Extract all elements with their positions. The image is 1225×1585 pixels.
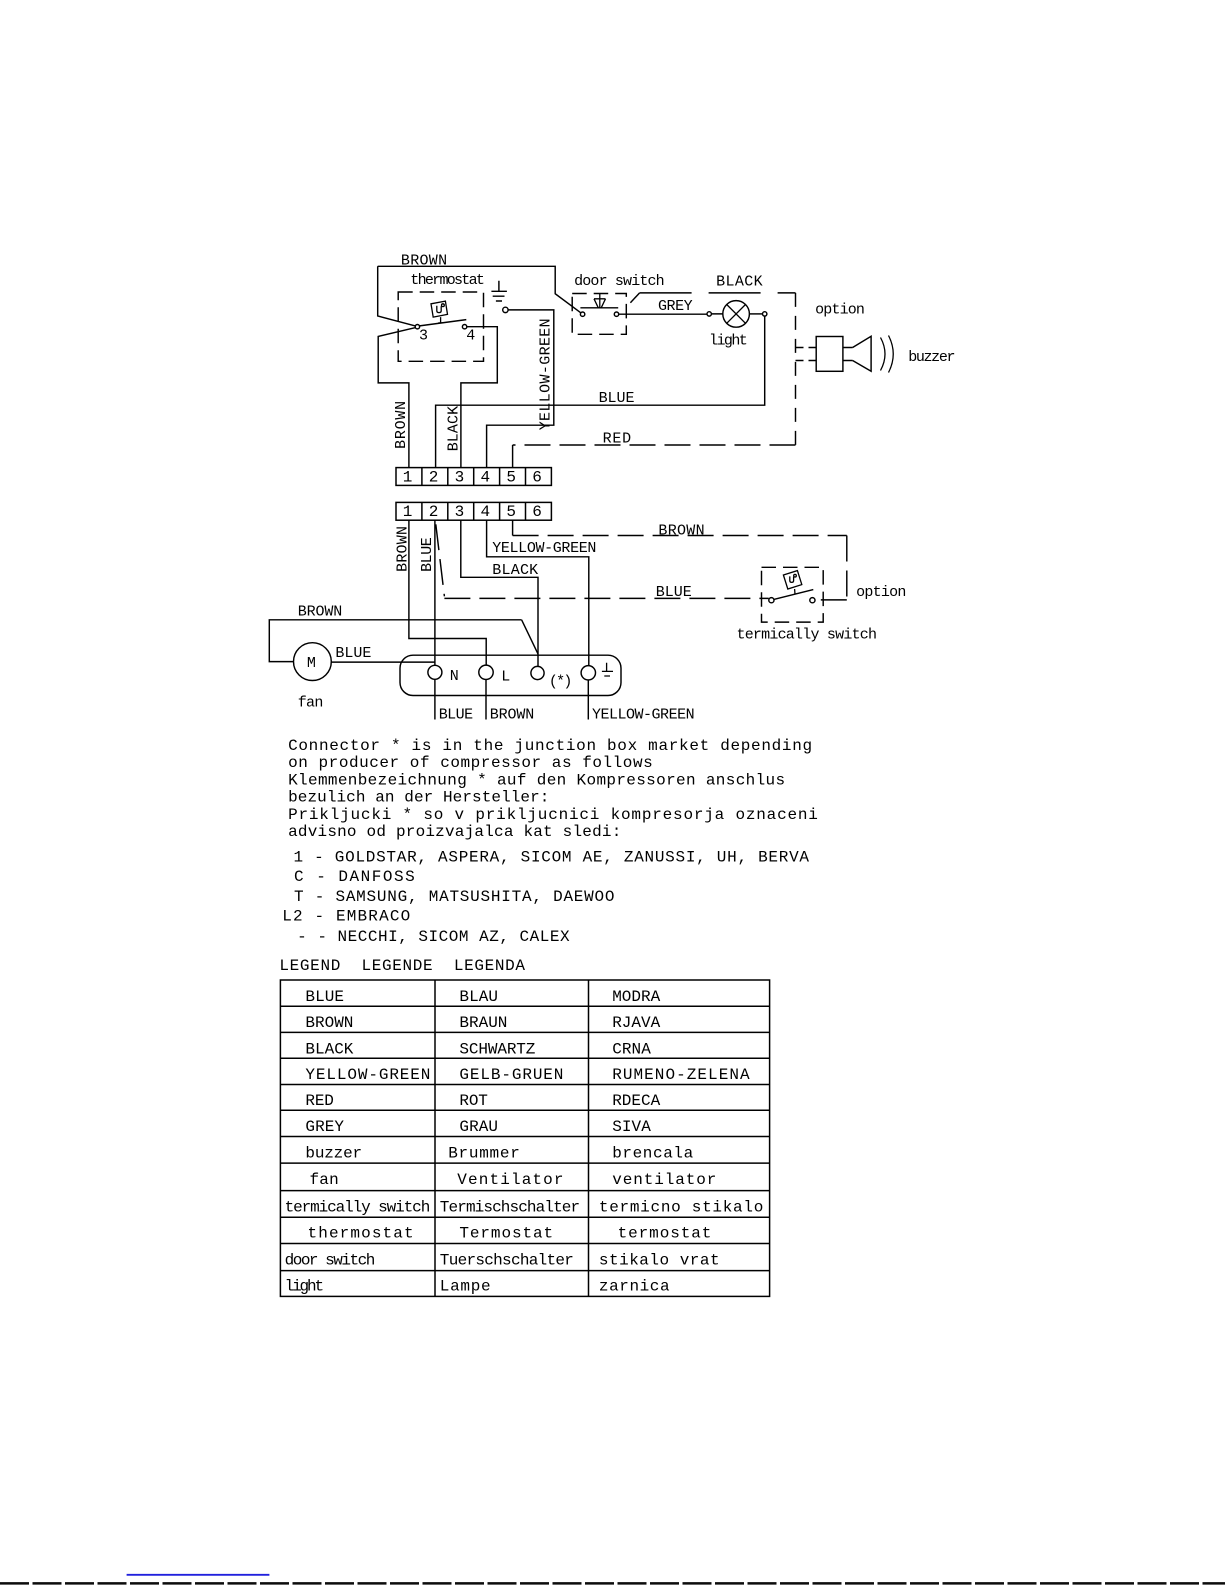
label option termically bbox=[856, 584, 906, 601]
svg-text:option: option bbox=[815, 302, 865, 319]
label buzzer bbox=[908, 349, 955, 366]
svg-text:fan: fan bbox=[310, 1171, 339, 1189]
svg-text:GREY: GREY bbox=[305, 1118, 344, 1136]
svg-text:2: 2 bbox=[429, 469, 439, 487]
svg-text:BROWN: BROWN bbox=[393, 401, 410, 449]
svg-text:Brummer: Brummer bbox=[448, 1144, 520, 1162]
svg-text:1: 1 bbox=[403, 503, 413, 521]
wire BROWN from thermostat to door switch bbox=[378, 266, 581, 313]
label LEGEND LEGENDE LEGENDA bbox=[279, 957, 525, 975]
svg-text:Tuerschschalter: Tuerschschalter bbox=[440, 1251, 574, 1269]
svg-text:BLACK: BLACK bbox=[492, 562, 538, 579]
junction terminal ground bbox=[581, 666, 595, 680]
svg-text:1: 1 bbox=[403, 469, 413, 487]
termically switch contacts bbox=[769, 590, 815, 603]
label BLUE bbox=[599, 390, 635, 407]
lamp right node bbox=[749, 312, 767, 316]
wire brown below junction bbox=[485, 680, 487, 720]
wire BLACK from pin 4 to strip X1 pin 3 bbox=[461, 327, 497, 468]
svg-text:BROWN: BROWN bbox=[305, 1014, 353, 1032]
wire brown left drop to thermostat pin 3 bbox=[378, 266, 416, 326]
label BROWN bbox=[401, 253, 447, 270]
label BLACK vertical bbox=[446, 406, 463, 451]
svg-text:L: L bbox=[501, 669, 510, 686]
svg-text:termically switch: termically switch bbox=[737, 626, 878, 643]
label YELLOW-GREEN vertical bbox=[538, 318, 555, 430]
junction terminal N bbox=[428, 665, 459, 685]
terminal strip X2 pins 1-6 bbox=[396, 502, 551, 520]
svg-text:5: 5 bbox=[506, 469, 516, 487]
junction terminal star bbox=[531, 666, 573, 690]
svg-text:SIVA: SIVA bbox=[612, 1118, 651, 1136]
thermostat pin 4 bbox=[462, 325, 475, 345]
label BLUE fan bbox=[335, 645, 371, 662]
thermostat switch blade bbox=[420, 320, 467, 326]
wire grey to lamp bbox=[619, 312, 723, 316]
legend row buzzer bbox=[305, 1144, 693, 1162]
wire BROWN dashed X2 pin5 to termically switch bbox=[513, 520, 847, 600]
node yellow-green terminal bbox=[503, 307, 508, 312]
svg-text:L2 - EMBRACO: L2 - EMBRACO bbox=[282, 908, 410, 926]
svg-text:YELLOW-GREEN: YELLOW-GREEN bbox=[538, 318, 555, 430]
svg-text:light: light bbox=[709, 333, 748, 350]
label option bbox=[815, 302, 865, 319]
label BROWN vertical strip2 bbox=[395, 526, 412, 572]
svg-text:buzzer: buzzer bbox=[908, 349, 955, 366]
svg-text:BLUE: BLUE bbox=[335, 645, 371, 662]
svg-text:advisno od proizvajalca kat sl: advisno od proizvajalca kat sledi: bbox=[288, 823, 621, 841]
svg-text:Klemmenbezeichnung * auf den K: Klemmenbezeichnung * auf den Kompressore… bbox=[288, 772, 785, 790]
legend row YELLOW-GREEN bbox=[305, 1066, 750, 1084]
svg-text:1 - GOLDSTAR, ASPERA, SICOM AE: 1 - GOLDSTAR, ASPERA, SICOM AE, ZANUSSI,… bbox=[294, 849, 810, 867]
wire brown down from pin 3 to terminal strip X1 pin 1 bbox=[378, 328, 415, 468]
label BLUE dashed bbox=[656, 584, 692, 601]
svg-text:option: option bbox=[856, 584, 906, 601]
svg-text:BROWN: BROWN bbox=[401, 253, 447, 270]
svg-text:fan: fan bbox=[298, 695, 324, 712]
svg-text:thermostat: thermostat bbox=[410, 272, 485, 289]
svg-text:M: M bbox=[307, 655, 316, 672]
wire BLACK X2 pin3 to junction star bbox=[461, 520, 538, 666]
fan motor M1 bbox=[294, 643, 332, 681]
svg-text:Ventilator: Ventilator bbox=[457, 1171, 563, 1189]
label BLACK bbox=[492, 562, 538, 579]
label BLACK bbox=[716, 273, 763, 290]
svg-text:BROWN: BROWN bbox=[298, 604, 343, 621]
wire black option dashed bbox=[630, 293, 795, 445]
wire BLUE dashed X2 pin2 branch to termically switch bbox=[436, 524, 769, 598]
svg-text:3: 3 bbox=[455, 469, 465, 487]
wire blue below junction bbox=[434, 679, 436, 719]
svg-text:termostat: termostat bbox=[618, 1224, 712, 1242]
junction terminal L bbox=[479, 665, 511, 685]
svg-text:GRAU: GRAU bbox=[459, 1118, 498, 1136]
svg-text:4: 4 bbox=[466, 327, 475, 344]
label BLUE below bbox=[439, 707, 473, 724]
svg-text:CRNA: CRNA bbox=[612, 1040, 651, 1058]
svg-text:BROWN: BROWN bbox=[395, 526, 412, 572]
svg-text:5: 5 bbox=[506, 503, 516, 521]
label YELLOW-GREEN bbox=[492, 540, 596, 557]
svg-text:C - DANFOSS: C - DANFOSS bbox=[294, 868, 415, 886]
svg-text:GREY: GREY bbox=[658, 298, 693, 315]
svg-text:YELLOW-GREEN: YELLOW-GREEN bbox=[592, 707, 695, 724]
svg-text:BLUE: BLUE bbox=[439, 707, 473, 724]
svg-text:BLAU: BLAU bbox=[459, 988, 498, 1006]
svg-text:RUMENO-ZELENA: RUMENO-ZELENA bbox=[612, 1066, 750, 1084]
wire YELLOW-GREEN to strip X1 pin 4 bbox=[487, 310, 554, 468]
svg-text:Prikljucki * so v prikljucnici: Prikljucki * so v prikljucnici kompresor… bbox=[288, 806, 818, 824]
door switch plunger bbox=[594, 294, 606, 308]
svg-text:light: light bbox=[285, 1278, 325, 1296]
label door switch bbox=[574, 273, 665, 290]
svg-text:RDECA: RDECA bbox=[612, 1092, 660, 1110]
thermostat pin 3 bbox=[415, 325, 428, 345]
terminal strip X1 pins 1-6 bbox=[396, 468, 551, 487]
svg-text:Termischschalter: Termischschalter bbox=[440, 1199, 580, 1217]
label thermostat bbox=[410, 272, 485, 289]
junction box bbox=[400, 655, 621, 695]
label BROWN below bbox=[490, 707, 535, 724]
svg-text:BLUE: BLUE bbox=[599, 390, 635, 407]
svg-text:BLUE: BLUE bbox=[419, 537, 436, 572]
svg-text:thermostat: thermostat bbox=[308, 1224, 414, 1242]
termically switch F1 dashed box bbox=[762, 567, 824, 622]
svg-text:ventilator: ventilator bbox=[612, 1171, 716, 1189]
legend row BROWN bbox=[305, 1014, 660, 1032]
thermostat TH1 dashed box bbox=[398, 292, 483, 361]
label GREY bbox=[658, 298, 693, 315]
wire brown fan to junction star bbox=[269, 620, 538, 662]
legend table grid bbox=[280, 980, 769, 1296]
label BROWN vertical bbox=[393, 401, 410, 449]
ground symbol junction bbox=[602, 663, 613, 676]
legend row BLACK bbox=[305, 1040, 651, 1058]
svg-text:BLUE: BLUE bbox=[305, 988, 344, 1006]
legend row light bbox=[285, 1278, 670, 1296]
label BROWN fan bbox=[298, 604, 343, 621]
svg-text:zarnica: zarnica bbox=[599, 1278, 670, 1296]
svg-text:N: N bbox=[450, 668, 459, 685]
legend row RED bbox=[305, 1092, 660, 1110]
wire blue fan to junction N bbox=[331, 661, 435, 663]
svg-text:Lampe: Lampe bbox=[440, 1278, 491, 1296]
svg-text:3: 3 bbox=[419, 327, 428, 344]
legend row BLUE bbox=[305, 988, 660, 1006]
ground symbol top bbox=[491, 281, 507, 301]
svg-text:Termostat: Termostat bbox=[459, 1224, 553, 1242]
svg-text:4: 4 bbox=[481, 503, 491, 521]
svg-text:T - SAMSUNG, MATSUSHITA, DAEWO: T - SAMSUNG, MATSUSHITA, DAEWOO bbox=[294, 888, 615, 906]
svg-text:RJAVA: RJAVA bbox=[612, 1014, 660, 1032]
legend row GREY bbox=[305, 1118, 651, 1136]
legend row termically switch bbox=[285, 1199, 764, 1217]
wire yellow-green below junction bbox=[587, 680, 589, 720]
svg-text:6: 6 bbox=[532, 469, 542, 487]
label RED bbox=[603, 430, 632, 447]
wire BLUE X2 pin2 to junction N bbox=[434, 520, 436, 665]
label light bbox=[709, 333, 748, 350]
svg-text:bezulich an der Hersteller:: bezulich an der Hersteller: bbox=[288, 789, 549, 807]
svg-text:3: 3 bbox=[455, 503, 465, 521]
svg-text:RED: RED bbox=[603, 430, 632, 447]
label fan bbox=[298, 695, 324, 712]
wire RED dashed to strip X1 pin 5 bbox=[513, 445, 796, 468]
legend row thermostat bbox=[308, 1224, 712, 1242]
svg-text:BLACK: BLACK bbox=[446, 406, 463, 451]
page bottom dashed rule bbox=[0, 1582, 1225, 1585]
svg-text:BRAUN: BRAUN bbox=[459, 1014, 507, 1032]
thermostat sensor icon bbox=[431, 301, 448, 323]
legend row fan bbox=[310, 1171, 717, 1189]
legend row door switch bbox=[285, 1251, 720, 1269]
svg-text:BROWN: BROWN bbox=[490, 707, 535, 724]
door switch contacts bbox=[580, 308, 618, 317]
svg-text:4: 4 bbox=[481, 469, 491, 487]
svg-text:termicno stikalo: termicno stikalo bbox=[599, 1199, 763, 1217]
svg-text:MODRA: MODRA bbox=[612, 988, 660, 1006]
svg-text:BLACK: BLACK bbox=[716, 273, 763, 290]
buzzer H1 bbox=[796, 336, 894, 373]
label YELLOW-GREEN below bbox=[592, 707, 695, 724]
note text connector asterisk bbox=[282, 737, 818, 946]
svg-text:door switch: door switch bbox=[574, 273, 665, 290]
hyperlink underline blue bbox=[127, 1574, 270, 1576]
label termically switch bbox=[737, 626, 878, 643]
svg-text:BROWN: BROWN bbox=[658, 523, 704, 540]
label BLUE vertical strip2 bbox=[419, 537, 436, 572]
svg-text:6: 6 bbox=[532, 503, 542, 521]
svg-text:buzzer: buzzer bbox=[305, 1144, 362, 1162]
svg-text:brencala: brencala bbox=[612, 1144, 693, 1162]
svg-text:ROT: ROT bbox=[459, 1092, 488, 1110]
svg-text:YELLOW-GREEN: YELLOW-GREEN bbox=[492, 540, 596, 557]
termically switch sensor icon bbox=[783, 571, 801, 595]
svg-text:(*): (*) bbox=[549, 674, 573, 691]
svg-text:- - NECCHI, SICOM AZ, CALEX: - - NECCHI, SICOM AZ, CALEX bbox=[297, 928, 570, 946]
svg-text:2: 2 bbox=[429, 503, 439, 521]
svg-text:SCHWARTZ: SCHWARTZ bbox=[459, 1040, 535, 1058]
svg-text:BLACK: BLACK bbox=[305, 1040, 353, 1058]
svg-text:GELB-GRUEN: GELB-GRUEN bbox=[459, 1066, 563, 1084]
svg-text:Connector * is in the junction: Connector * is in the junction box marke… bbox=[288, 737, 812, 755]
svg-text:YELLOW-GREEN: YELLOW-GREEN bbox=[305, 1066, 430, 1084]
wire BLUE lamp to strip X1 pin 2 bbox=[436, 316, 765, 468]
door switch S2 dashed box bbox=[572, 294, 626, 335]
lamp E1 bbox=[723, 301, 750, 328]
svg-text:RED: RED bbox=[305, 1092, 334, 1110]
svg-text:termically switch: termically switch bbox=[285, 1199, 431, 1217]
svg-text:on producer of compressor as f: on producer of compressor as follows bbox=[288, 754, 653, 772]
svg-text:LEGEND LEGENDE LEGENDA: LEGEND LEGENDE LEGENDA bbox=[279, 957, 525, 975]
svg-text:BLUE: BLUE bbox=[656, 584, 692, 601]
wire BROWN X2 pin1 to junction L bbox=[409, 520, 486, 665]
wire YELLOW-GREEN X2 pin4 to junction ground bbox=[487, 520, 589, 665]
svg-text:stikalo vrat: stikalo vrat bbox=[599, 1251, 720, 1269]
label BROWN dashed bbox=[658, 523, 704, 540]
svg-text:door switch: door switch bbox=[285, 1251, 376, 1269]
